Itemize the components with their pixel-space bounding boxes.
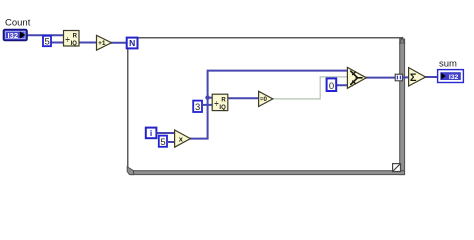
wire tunnel to sigma [402,76,410,78]
svg-text:5: 5 [45,36,50,47]
quotient &amp; remainder QR1 [64,31,80,48]
for-loop border [127,37,405,175]
svg-text:IQ: IQ [71,41,78,47]
wire QR2 remainder to equal-zero [227,97,260,99]
svg-text:3: 3 [195,102,200,113]
svg-text:+1: +1 [98,40,106,47]
quotient &amp; remainder QR2 [212,94,228,111]
indicator terminal sum (I32) [438,70,464,83]
svg-text:Σ: Σ [410,72,417,84]
wire multiply output up to select t-input (with junction) [190,71,353,139]
iteration terminal i [146,128,157,139]
svg-text:Count: Count [5,18,31,29]
svg-text:R: R [221,98,226,104]
multiply node [175,130,191,147]
constant 0 [327,78,337,91]
loop count terminal N [127,38,138,49]
wire increment to N terminal [110,42,128,44]
wire select output to tunnel [365,77,396,79]
svg-text:I32: I32 [8,31,19,40]
indexing tunnel [395,74,402,81]
svg-text:0: 0 [329,81,334,92]
equal-zero node =0? [259,91,273,106]
svg-text:=0: =0 [260,96,268,103]
select node [347,67,366,88]
svg-text:÷: ÷ [214,99,219,108]
control terminal Count (I32) [4,30,28,41]
svg-text:R: R [73,34,78,40]
increment node +1 [97,35,112,50]
wire sigma to sum terminal [426,76,439,78]
svg-text:5: 5 [160,137,165,148]
constant 5 (inner) [159,136,167,149]
svg-text:I32: I32 [449,74,459,81]
svg-text:N: N [129,38,135,48]
constant 3 [193,101,202,114]
add-array-elements node (sigma) [409,68,426,86]
junction node [205,95,210,100]
boolean wire equal-zero to select s-input [273,77,351,99]
wire Count to QR1 x-input [26,34,65,36]
constant 5 [43,36,51,48]
svg-text:i: i [150,128,152,138]
resize handle (loop bottom-right corner) [393,164,401,172]
svg-text:IQ: IQ [219,105,226,111]
svg-text:sum: sum [439,59,457,70]
wire constant 0 to select f-input [336,84,353,86]
svg-text:÷: ÷ [65,35,70,44]
wire junction to QR2 x-input [208,97,215,99]
wire constant 5 to multiply [167,141,176,143]
wire QR1 quotient to increment [78,42,98,44]
wire constant 5 to QR1 y-input [50,42,65,44]
wire i to multiply [156,132,176,134]
wire constant 3 to QR2 y-input [202,104,215,106]
